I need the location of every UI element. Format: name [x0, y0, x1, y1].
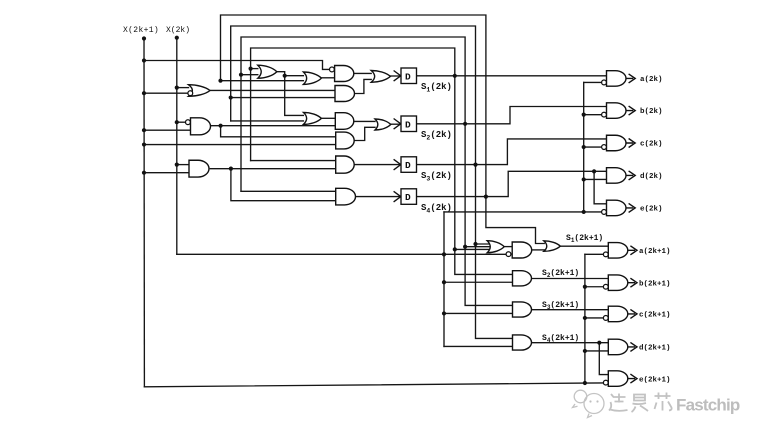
node X(2k) y87.6 — [175, 86, 179, 90]
node complement bus d(2k+1) — [583, 349, 587, 353]
output gate a(2k+1) — [608, 243, 627, 258]
wire S3 vertical into bottom section — [475, 165, 477, 244]
and-gate A6 — [513, 271, 532, 286]
node complement bus c(2k) — [582, 145, 586, 149]
svg-text:D: D — [405, 160, 411, 171]
node X(2k+1) top — [142, 36, 146, 40]
and-gate G3 — [189, 160, 209, 177]
output gate d(2k) — [607, 168, 627, 184]
D flip-flop clock arrow D2 — [394, 119, 403, 130]
wire S1 feedback to A3 upper input — [251, 160, 336, 162]
wire O7 output to A5 upper input — [504, 246, 512, 248]
wire O3 output to A2a upper input — [321, 117, 335, 119]
wire S3 feedback to A2 lower input — [231, 97, 335, 99]
D flip-flop clock arrow D1 — [394, 71, 403, 82]
node complement bus e(2k) line — [582, 210, 586, 214]
wire O1 output riser — [277, 72, 304, 116]
node complement bus c(2k+1) — [583, 316, 587, 320]
output arrow d(2k) — [626, 171, 635, 180]
wire A1 output to OR5 upper input — [354, 72, 372, 74]
inversion bubble c(2k+1) — [603, 316, 608, 321]
output arrow c(2k+1) — [628, 309, 637, 318]
wire S3(2k) from D3 riser to c(2k) gate — [417, 139, 607, 165]
svg-text:S3(2k+1): S3(2k+1) — [542, 301, 579, 311]
wire X(2k+1) branch y60.5 to A1 bubble — [144, 61, 329, 70]
wire S4 route down to O8 upper input — [486, 197, 544, 244]
inversion bubble A1 upper input — [330, 67, 335, 72]
svg-text:S1(2k+1): S1(2k+1) — [566, 234, 603, 244]
wire G2 output to A2a lower input — [210, 125, 335, 127]
output gate c(2k) — [607, 135, 627, 151]
inversion bubble A5 lower input — [506, 252, 511, 257]
wire A2a output to OR6 upper input — [354, 120, 375, 122]
node S4 feedback y80.7 — [218, 79, 222, 83]
wire OR6 output to D2 — [391, 123, 401, 125]
node complement bus d(2k) — [582, 177, 586, 181]
inversion bubble c(2k) — [602, 145, 607, 150]
output arrow e(2k+1) — [628, 374, 637, 383]
node complement bus b(2k) — [582, 113, 586, 117]
D flip-flop U3 box — [401, 157, 417, 173]
and-gate A2b — [336, 132, 354, 149]
wire X(2k+1) complement vertical for 2k+1 outputs — [584, 254, 586, 382]
output gate e(2k) — [607, 200, 627, 216]
svg-text:S2(2k+1): S2(2k+1) — [542, 269, 579, 279]
node S2 line x465.1 — [463, 122, 467, 126]
wire feedback rail S4 top — [221, 15, 486, 197]
inversion bubble a(2k) — [602, 80, 607, 85]
wire branch to b(2k) bubble — [584, 114, 602, 116]
watermark glyph su — [609, 394, 628, 411]
node S1 feedback y68.6 — [249, 67, 253, 71]
wire S2 vertical into bottom section — [464, 124, 466, 247]
output arrow b(2k+1) — [628, 278, 637, 287]
node complement bus X(2k+1) bottom — [583, 381, 587, 385]
wire X(2k+1) branch to G2 lower input — [144, 129, 191, 131]
wire S1(2k) from D1 to a(2k) gate — [417, 75, 607, 77]
wire feedback rail S1 top — [251, 48, 455, 161]
wire S4 feedback to O2 lower input — [221, 80, 304, 82]
wire S4(2k) from D4 riser to d(2k) gate — [417, 171, 607, 196]
output arrow a(2k+1) — [628, 246, 637, 255]
inversion bubble e(2k) — [602, 210, 607, 215]
wire riser branch to O2 upper input — [285, 75, 304, 77]
wire X(2k+1) input vertical — [143, 39, 145, 387]
wire feedback rail S2 top — [241, 37, 465, 191]
node S4(2k+1) line branch — [597, 341, 601, 345]
wire X(2k) branch to G1 upper input — [177, 87, 189, 89]
svg-text:a(2k): a(2k) — [640, 76, 663, 84]
and-gate A5 (inverted lower input) — [512, 242, 532, 258]
svg-text:X(2k+1): X(2k+1) — [123, 26, 159, 35]
svg-text:D: D — [405, 192, 411, 203]
node X(2k) top — [175, 36, 179, 40]
svg-text:e(2k): e(2k) — [640, 206, 663, 214]
and-gate A4 — [336, 188, 356, 205]
node S4 line x485.9 — [484, 195, 488, 199]
wire S4(2k+1) from A8 to d(2k+1) gate — [532, 342, 609, 344]
output gate e(2k+1) — [608, 371, 628, 387]
and-gate A8 — [513, 335, 532, 350]
node O1 riser branch — [283, 74, 287, 78]
node X(2k+1) y172.7 — [142, 171, 146, 175]
wire S3 to A8 upper input — [476, 244, 513, 338]
inversion bubble G2 upper input — [186, 120, 191, 125]
svg-text:c(2k+1): c(2k+1) — [639, 312, 671, 320]
svg-text:D: D — [405, 119, 411, 130]
wire S1 vertical into bottom section — [454, 76, 456, 250]
D flip-flop U1 box — [401, 68, 417, 84]
or-gate G1 (X inputs, inverted lower input) — [189, 85, 211, 97]
wire O2 output to A1 lower input — [321, 77, 334, 79]
wire S2 to A7 upper input — [465, 247, 512, 306]
or-gate O1 — [258, 65, 277, 78]
svg-text:S3(2k): S3(2k) — [421, 171, 452, 183]
wire S2(2k+1) from A6 to b(2k+1) gate — [532, 278, 609, 280]
and-gate A2 — [335, 86, 354, 102]
node G3 output branch — [229, 167, 233, 171]
or-gate OR6 — [375, 119, 391, 130]
wire G3 output to A3 lower input — [210, 168, 335, 170]
inversion bubble G1 lower input — [188, 91, 193, 96]
wire G3 output branch down to A4 lower input — [231, 169, 336, 201]
svg-text:X(2k): X(2k) — [166, 26, 190, 35]
output gate a(2k) — [607, 71, 627, 87]
wire X(2k+1) branch to G3 lower input — [144, 172, 189, 174]
wire A5 output to O8 lower input — [531, 249, 545, 251]
output arrow b(2k) — [626, 106, 635, 115]
wire branch to d(2k) lower input — [584, 178, 607, 180]
wire branch to A6 lower input — [444, 281, 513, 283]
and-gate A1 (inverted upper input) — [335, 66, 354, 82]
node X(2k) y122.2 — [175, 120, 179, 124]
wire branch to c(2k) bubble — [584, 146, 602, 148]
wire X(2k) branch to G3 upper input — [177, 164, 189, 166]
svg-text:D: D — [405, 71, 411, 82]
node S3 line x475.5 — [473, 163, 477, 167]
wire S1 stub to O7 input3 — [455, 248, 489, 250]
svg-text:S4(2k): S4(2k) — [421, 203, 452, 215]
wire feedback rail S3 top — [231, 26, 476, 165]
D flip-flop clock arrow D4 — [394, 191, 403, 202]
watermark glyph yi — [632, 395, 649, 413]
wire e(2k) bubble line from x444 corner — [444, 211, 601, 213]
node X(2k+1) y130 — [142, 128, 146, 132]
node S3 feedback y97.55 — [229, 95, 233, 99]
inversion bubble a(2k+1) — [603, 252, 608, 257]
node S1 bottom O7 branch — [453, 247, 457, 251]
node S2 feedback y74.7 — [239, 73, 243, 77]
svg-text:e(2k+1): e(2k+1) — [639, 376, 671, 384]
svg-text:b(2k+1): b(2k+1) — [639, 280, 671, 288]
svg-text:S4(2k+1): S4(2k+1) — [542, 334, 579, 344]
wire A3 output to D3 — [354, 164, 401, 166]
or-gate O2 — [303, 72, 321, 84]
node S3 bottom O7 branch — [473, 242, 477, 246]
wire branch to c(2k+1) bubble — [585, 317, 603, 319]
wire S1 to A6 upper input — [455, 249, 513, 274]
wire X(2k) input vertical — [176, 38, 178, 255]
svg-text:a(2k+1): a(2k+1) — [639, 248, 671, 256]
wire S2(2k) from D2 riser to b(2k) gate — [417, 107, 607, 124]
svg-text:b(2k): b(2k) — [640, 108, 663, 116]
node x444 A6 branch — [442, 280, 446, 284]
wire S3(2k+1) from A7 to c(2k+1) gate — [532, 309, 609, 311]
node complement bus b(2k+1) — [583, 285, 587, 289]
node X(2k+1) y93.2 — [142, 91, 146, 95]
node G2 output branch — [219, 124, 223, 128]
wire branch to d(2k+1) lower input — [585, 350, 608, 352]
wire X(2k) bottom run to A5 bubble — [177, 253, 506, 255]
wire S3 feedback corner to O3 lower input — [231, 120, 304, 122]
wire S4(2k+1) branch down to e(2k+1) upper input — [599, 343, 608, 375]
svg-text:d(2k+1): d(2k+1) — [639, 345, 671, 353]
output arrow a(2k) — [626, 74, 635, 83]
output arrow d(2k+1) — [628, 342, 637, 351]
wire S4 branch down to e(2k) gate upper input — [594, 171, 606, 204]
wire branch to b(2k+1) bubble — [585, 286, 603, 288]
watermark glyph xin — [655, 393, 672, 411]
and-gate A3 — [336, 156, 355, 173]
wire A2b output riser to OR6 lower input — [354, 127, 375, 140]
node S1 line x454.8 — [453, 74, 457, 78]
wire S2 feedback stub to O1 lower input — [241, 74, 258, 76]
wire branch to A8 lower input — [444, 345, 513, 347]
D flip-flop U4 box — [401, 189, 417, 205]
wire S2 feedback to A4 upper input — [241, 190, 336, 192]
D flip-flop U2 box — [401, 116, 417, 132]
wire G1 output to A2 upper input — [210, 89, 335, 91]
svg-text:S1(2k): S1(2k) — [421, 82, 452, 94]
or-gate O7 (3-input) — [487, 241, 504, 253]
svg-text:Fastchip: Fastchip — [676, 396, 740, 415]
node x444 A7 branch — [442, 311, 446, 315]
D flip-flop clock arrow D3 — [394, 159, 403, 170]
wire X(2k+1) branch to A2b lower input — [144, 144, 336, 146]
wire A4 output to D4 — [355, 196, 400, 198]
and-gate A2a — [335, 113, 354, 130]
svg-text:S2(2k): S2(2k) — [421, 130, 452, 142]
wire X(2k+1) bottom run to e(2k+1) bubble — [144, 383, 603, 387]
inversion bubble b(2k) — [602, 112, 607, 117]
svg-text:d(2k): d(2k) — [640, 173, 663, 181]
node X(2k+1) y60.5 — [142, 58, 146, 62]
wire G2 output branch down to A2b upper input — [221, 126, 336, 137]
svg-text:c(2k): c(2k) — [640, 141, 663, 149]
wire S1(2k+1) from O8 to a(2k+1) gate — [560, 245, 608, 247]
wire S2 stub to O7 input2 — [465, 246, 490, 248]
watermark logo speech bubbles — [574, 390, 587, 403]
wire branch to a(2k+1) bubble — [585, 253, 603, 255]
wire S3 stub to O7 input1 — [476, 243, 492, 245]
output gate b(2k) — [607, 103, 627, 119]
inversion bubble b(2k+1) — [603, 284, 608, 289]
wire x444 complement bus vertical — [443, 212, 445, 347]
wire X(2k) branch to G2 bubble — [177, 121, 186, 123]
inversion bubble e(2k+1) — [603, 380, 608, 385]
node X(2k+1) y144.5 — [142, 142, 146, 146]
and-gate A7 — [513, 302, 532, 317]
output gate b(2k+1) — [608, 275, 628, 291]
or-gate OR5 — [371, 71, 390, 83]
wire branch to A7 lower input — [444, 312, 513, 314]
wire A2 output riser to OR5 lower input — [354, 79, 371, 93]
output gate d(2k+1) — [608, 339, 628, 355]
node x444 X(2k) junction — [442, 252, 446, 256]
node S4 line x594.1 — [592, 169, 596, 173]
output arrow c(2k) — [626, 139, 635, 148]
output arrow e(2k) — [626, 203, 635, 212]
node S2 bottom O7 branch — [463, 245, 467, 249]
wire X(2k+1) branch to G1 bubble — [144, 92, 188, 94]
wire X(2k) complement vertical bus for 2k outputs — [583, 82, 585, 212]
or-gate O8 — [544, 241, 561, 252]
and-gate G2 (inverted upper input) — [191, 118, 211, 135]
wire S1 feedback stub to O1 upper input — [251, 68, 258, 70]
wire branch to a(2k) bubble — [584, 81, 602, 83]
wire OR5 output to D1 — [390, 75, 400, 77]
node X(2k) y164.6 — [175, 163, 179, 167]
or-gate O3 — [303, 112, 321, 124]
output gate c(2k+1) — [608, 306, 628, 322]
